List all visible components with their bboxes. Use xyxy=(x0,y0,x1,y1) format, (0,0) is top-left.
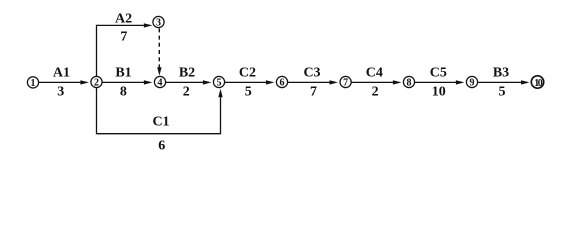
arrow A2 (node 2 up and right to node 3), duration 7 xyxy=(97,11,153,76)
svg-text:C5: C5 xyxy=(430,66,447,81)
arrow A1 (node 1 to node 2), duration 3 xyxy=(39,66,89,100)
node 8 xyxy=(403,76,414,88)
node 10 xyxy=(531,76,543,89)
svg-text:A1: A1 xyxy=(53,66,70,81)
svg-text:C4: C4 xyxy=(366,66,383,81)
node 9 xyxy=(466,76,477,88)
svg-text:8: 8 xyxy=(407,78,412,89)
node 1 xyxy=(27,77,38,89)
svg-text:C1: C1 xyxy=(152,115,169,130)
node 4 xyxy=(154,76,165,88)
svg-text:C2: C2 xyxy=(239,66,256,81)
svg-text:5: 5 xyxy=(217,78,222,89)
arrow C5 (node 8 to node 9), duration 10 xyxy=(415,66,465,100)
svg-text:1: 1 xyxy=(31,78,36,89)
svg-text:2: 2 xyxy=(183,85,190,100)
arrow C4 (node 7 to node 8), duration 2 xyxy=(351,66,401,100)
svg-text:2: 2 xyxy=(372,85,379,100)
arrow C3 (node 6 to node 7), duration 7 xyxy=(288,66,338,100)
arrow C1 (node 2 down, right, up into node 5), duration 6 xyxy=(97,88,223,154)
svg-text:B1: B1 xyxy=(115,66,131,81)
svg-text:6: 6 xyxy=(280,78,285,89)
svg-text:5: 5 xyxy=(245,85,252,100)
node 6 xyxy=(276,76,287,88)
arrow B2 (node 4 to node 5), duration 2 xyxy=(166,66,212,100)
arrow B3 (node 9 to node 10), duration 5 xyxy=(478,66,530,100)
svg-text:B3: B3 xyxy=(493,66,509,81)
svg-text:3: 3 xyxy=(156,18,161,29)
svg-text:9: 9 xyxy=(470,78,475,89)
node 5 xyxy=(213,76,224,88)
node 2 xyxy=(91,76,102,88)
svg-text:4: 4 xyxy=(158,78,163,89)
arrow B1 (node 2 to node 4), duration 8 xyxy=(102,66,152,100)
svg-text:8: 8 xyxy=(120,85,127,100)
node 3 xyxy=(153,16,164,28)
svg-text:3: 3 xyxy=(57,85,64,100)
svg-text:7: 7 xyxy=(120,30,127,45)
svg-text:A2: A2 xyxy=(115,11,132,26)
arrow C2 (node 5 to node 6), duration 5 xyxy=(225,66,275,100)
svg-text:7: 7 xyxy=(343,78,348,89)
svg-text:B2: B2 xyxy=(179,66,195,81)
svg-text:7: 7 xyxy=(310,85,317,100)
node 7 xyxy=(340,76,351,88)
svg-text:5: 5 xyxy=(499,85,506,100)
svg-text:2: 2 xyxy=(94,78,99,89)
dashed dummy arrow (node 3 down to node 4) xyxy=(157,28,161,75)
svg-text:6: 6 xyxy=(158,139,165,154)
svg-text:10: 10 xyxy=(432,85,446,100)
svg-text:C3: C3 xyxy=(303,66,320,81)
